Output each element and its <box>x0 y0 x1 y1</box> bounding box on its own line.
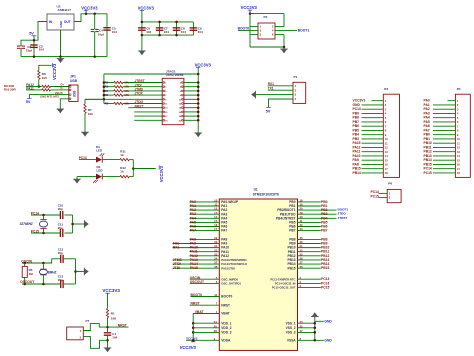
svg-text:VCC3V3: VCC3V3 <box>52 63 57 80</box>
svg-text:D-: D- <box>61 86 64 90</box>
svg-text:OSCOUT: OSCOUT <box>190 280 204 284</box>
svg-text:14: 14 <box>457 154 460 158</box>
svg-text:35: 35 <box>300 324 304 328</box>
svg-text:LED: LED <box>96 149 103 153</box>
svg-text:VSSA: VSSA <box>287 338 296 342</box>
svg-text:VBAT: VBAT <box>221 312 229 316</box>
svg-text:16: 16 <box>457 163 460 167</box>
svg-text:PA15: PA15 <box>190 266 198 270</box>
svg-text:R1: R1 <box>111 311 115 315</box>
svg-text:PC15-OSC32_OUT: PC15-OSC32_OUT <box>272 286 296 290</box>
svg-text:18: 18 <box>457 171 460 175</box>
svg-text:GND: GND <box>324 320 332 324</box>
svg-text:5V: 5V <box>266 109 271 113</box>
svg-text:GND MT1 MT2: GND MT1 MT2 <box>40 94 59 98</box>
svg-text:ASM1117: ASM1117 <box>58 8 72 12</box>
svg-text:PC15: PC15 <box>424 171 432 175</box>
svg-text:PA7: PA7 <box>190 229 196 233</box>
svg-text:10: 10 <box>457 137 460 141</box>
svg-text:P1: P1 <box>294 75 298 79</box>
svg-text:16: 16 <box>385 163 388 167</box>
svg-text:R10 20R: R10 20R <box>4 87 17 91</box>
svg-text:10k: 10k <box>124 93 129 97</box>
svg-text:5V: 5V <box>29 32 34 36</box>
svg-text:LED: LED <box>97 168 104 172</box>
svg-text:1k: 1k <box>120 153 124 157</box>
svg-text:JTDI: JTDI <box>173 266 180 270</box>
svg-text:20p: 20p <box>58 278 63 282</box>
svg-text:20p: 20p <box>58 207 63 211</box>
svg-text:11: 11 <box>457 141 460 145</box>
svg-text:VBAT: VBAT <box>195 310 204 314</box>
svg-text:VDD_2: VDD_2 <box>221 326 232 330</box>
svg-text:44: 44 <box>214 293 218 297</box>
svg-text:RX1: RX1 <box>268 82 274 86</box>
svg-text:104: 104 <box>181 30 186 34</box>
svg-text:R8: R8 <box>105 102 109 106</box>
svg-text:38: 38 <box>214 265 218 269</box>
svg-text:20p: 20p <box>58 251 63 255</box>
svg-text:10K: 10K <box>111 316 117 320</box>
svg-text:VCC3V3: VCC3V3 <box>241 5 258 10</box>
svg-text:PA7: PA7 <box>221 229 227 233</box>
svg-text:U1: U1 <box>254 187 258 191</box>
svg-text:BOOT0: BOOT0 <box>191 293 203 297</box>
svg-text:20p: 20p <box>58 226 63 230</box>
svg-text:17: 17 <box>214 227 218 231</box>
svg-text:36: 36 <box>214 324 218 328</box>
svg-text:12: 12 <box>457 146 460 150</box>
svg-text:18: 18 <box>385 171 388 175</box>
svg-text:VCC3V3: VCC3V3 <box>102 288 120 293</box>
svg-text:10k: 10k <box>124 102 129 106</box>
svg-text:VDD_3: VDD_3 <box>221 331 232 335</box>
svg-text:VCC3V3: VCC3V3 <box>138 5 155 10</box>
svg-text:VCC3V3: VCC3V3 <box>180 345 197 350</box>
svg-text:10: 10 <box>385 137 388 141</box>
svg-text:GND: GND <box>59 20 63 28</box>
svg-text:PB14: PB14 <box>353 171 361 175</box>
svg-text:JTCK: JTCK <box>135 92 144 96</box>
svg-text:5V: 5V <box>26 100 31 104</box>
svg-text:VSS_1: VSS_1 <box>286 321 296 325</box>
svg-text:14: 14 <box>385 154 388 158</box>
svg-text:104: 104 <box>112 30 117 34</box>
svg-text:USB: USB <box>70 79 78 83</box>
svg-text:OSC_OUT/PD1: OSC_OUT/PD1 <box>221 282 241 286</box>
svg-text:VCC3V3: VCC3V3 <box>195 62 212 67</box>
svg-text:PC14-OSC32_IN: PC14-OSC32_IN <box>275 282 296 286</box>
svg-text:PB7: PB7 <box>289 229 295 233</box>
svg-text:JP1: JP1 <box>70 74 76 78</box>
svg-text:32768HZ: 32768HZ <box>20 222 34 226</box>
svg-text:VSS_3: VSS_3 <box>286 331 296 335</box>
svg-text:VDDA: VDDA <box>221 338 231 342</box>
svg-text:TX1: TX1 <box>268 87 274 91</box>
svg-text:VCC3V3: VCC3V3 <box>186 336 198 340</box>
svg-text:VCC3V3: VCC3V3 <box>159 165 164 182</box>
svg-text:1k5: 1k5 <box>42 76 47 80</box>
svg-text:24: 24 <box>214 320 218 324</box>
svg-text:PC13-TAMPER-RTC: PC13-TAMPER-RTC <box>270 277 295 281</box>
svg-text:P7: P7 <box>86 319 90 323</box>
svg-text:104: 104 <box>39 48 44 52</box>
svg-text:BOOT1: BOOT1 <box>298 29 310 33</box>
svg-text:GND: GND <box>324 339 332 343</box>
svg-text:PB15: PB15 <box>321 266 330 270</box>
svg-text:48: 48 <box>214 329 218 333</box>
svg-text:1M: 1M <box>29 272 34 276</box>
svg-text:PA11: PA11 <box>26 86 34 90</box>
svg-text:104: 104 <box>146 30 151 34</box>
svg-text:17: 17 <box>385 167 388 171</box>
svg-text:104: 104 <box>164 30 169 34</box>
svg-text:BOOT0: BOOT0 <box>238 27 250 31</box>
svg-text:13: 13 <box>385 150 388 154</box>
svg-text:11: 11 <box>385 141 388 145</box>
svg-text:VSS_2: VSS_2 <box>286 326 296 330</box>
svg-text:10μf: 10μf <box>98 32 104 36</box>
svg-text:VCC3V3: VCC3V3 <box>81 5 98 10</box>
svg-text:P6: P6 <box>388 182 392 186</box>
svg-text:R5: R5 <box>105 93 109 97</box>
svg-text:43: 43 <box>300 227 304 231</box>
svg-text:PC15: PC15 <box>371 194 379 198</box>
svg-text:104: 104 <box>112 336 117 340</box>
svg-text:NRST: NRST <box>191 302 200 306</box>
svg-text:28: 28 <box>300 265 304 269</box>
svg-text:RX1: RX1 <box>173 246 180 250</box>
svg-text:NRST: NRST <box>118 323 127 327</box>
svg-text:PC15: PC15 <box>321 286 330 290</box>
svg-text:1k: 1k <box>120 169 124 173</box>
svg-text:BOOT0: BOOT0 <box>221 295 232 299</box>
svg-text:NRST: NRST <box>135 104 145 108</box>
svg-text:P2: P2 <box>264 15 268 19</box>
svg-text:15: 15 <box>385 158 388 162</box>
svg-text:10k: 10k <box>88 112 93 116</box>
svg-text:10μf: 10μf <box>26 48 32 52</box>
svg-text:104: 104 <box>198 30 203 34</box>
svg-text:17: 17 <box>457 167 460 171</box>
svg-text:P3: P3 <box>384 87 388 91</box>
svg-text:23: 23 <box>300 320 304 324</box>
svg-text:47: 47 <box>300 329 304 333</box>
svg-text:13: 13 <box>457 150 460 154</box>
svg-text:P4: P4 <box>457 87 461 91</box>
svg-text:NRST: NRST <box>221 303 230 307</box>
svg-text:VDD_1: VDD_1 <box>221 321 232 325</box>
svg-text:PA15/JTDI: PA15/JTDI <box>221 266 235 270</box>
svg-text:15: 15 <box>457 158 460 162</box>
svg-text:STM32F103C8T6: STM32F103C8T6 <box>253 193 279 197</box>
svg-text:12: 12 <box>385 146 388 150</box>
svg-text:USB: USB <box>72 90 76 97</box>
svg-text:PB15: PB15 <box>288 266 296 270</box>
svg-text:OUT: OUT <box>64 20 71 24</box>
svg-text:PB7: PB7 <box>321 229 328 233</box>
svg-text:JTRST: JTRST <box>338 216 348 220</box>
svg-text:8MHZ: 8MHZ <box>48 270 57 274</box>
svg-text:JTAG 20PIN: JTAG 20PIN <box>166 73 184 77</box>
